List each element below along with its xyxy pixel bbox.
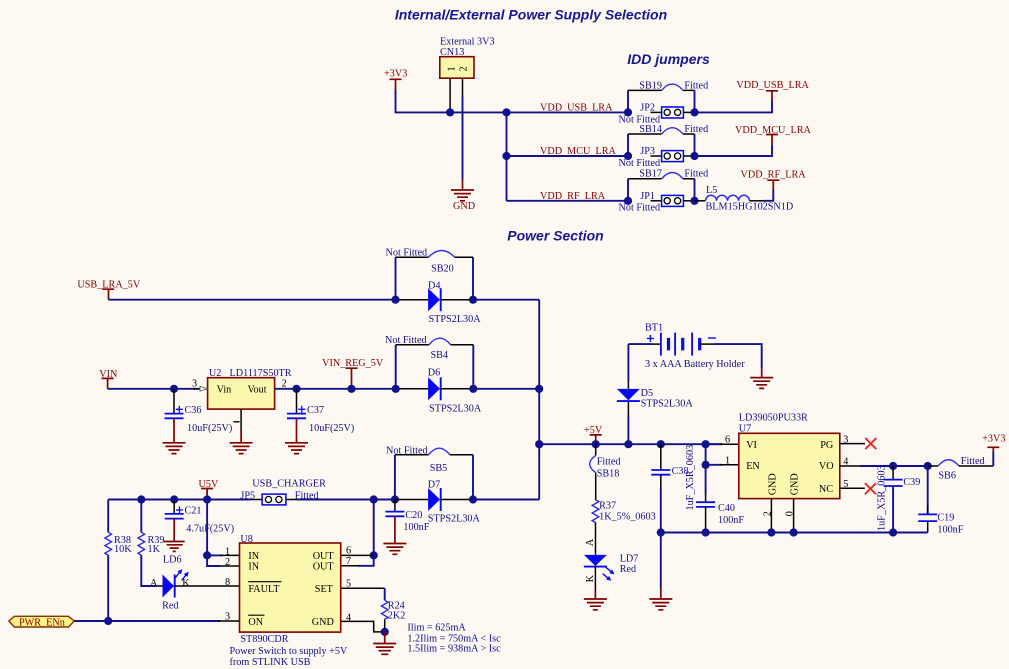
pin 5 (NC) U7 with no-ERC [840,479,876,494]
junction +5V [592,440,600,448]
wire R24 to gnd junction [384,619,386,632]
junction C40 top [702,440,710,448]
svg-text:Power Switch to supply +5V: Power Switch to supply +5V [230,646,348,657]
svg-text:1: 1 [225,547,230,558]
wire U2 out [275,388,396,390]
svg-text:2: 2 [282,378,287,389]
solder bridge SB18 [590,444,621,500]
svg-text:1: 1 [446,66,457,71]
junction pin1 branch [203,551,211,559]
pin 2 of U8 [220,557,240,568]
power port VIN_REG_5V [322,358,384,389]
svg-text:6: 6 [725,435,730,446]
junction D4 left [391,296,399,304]
junction C20/D7 [391,495,399,503]
svg-text:Not Fitted: Not Fitted [385,335,427,346]
junction R24 bottom [381,628,389,636]
wire L5 to VDD_RF_LRA port [763,190,773,201]
wire right trunk vertical [538,300,540,500]
svg-text:C36: C36 [185,405,202,416]
switch U8 ST890CDR [240,534,341,645]
pin 3 of U2 [192,378,208,391]
junction EN [702,461,710,469]
svg-text:4.7uF(25V): 4.7uF(25V) [186,524,234,535]
svg-text:2: 2 [225,557,230,568]
svg-text:C39: C39 [903,477,920,488]
wire bottom rail [661,532,928,534]
svg-text:External 3V3: External 3V3 [440,37,495,48]
resistor R24 2K2 [381,600,405,621]
svg-text:C21: C21 [185,506,202,517]
capacitor C39 1uF_X5R_0603 [876,465,920,532]
svg-text:3: 3 [843,435,848,446]
junction bottom C38 [657,528,665,536]
svg-text:BLM15HG102SN1D: BLM15HG102SN1D [706,202,794,213]
wire D4 to right trunk [473,299,539,301]
svg-text:OUT: OUT [313,562,335,573]
svg-text:STPS2L30A: STPS2L30A [641,399,694,410]
junction R39 top [137,495,145,503]
svg-text:Not Fitted: Not Fitted [619,203,661,214]
junction JP3 right [690,152,698,160]
svg-text:A: A [585,538,596,546]
svg-text:D6: D6 [428,368,440,379]
svg-text:1: 1 [725,455,730,466]
svg-text:Internal/External Power Supply: Internal/External Power Supply Selection [395,6,667,22]
svg-text:SB6: SB6 [938,471,956,482]
wire VIN to U2 [108,388,208,390]
svg-text:Fitted: Fitted [295,490,319,501]
power port VDD_RF_LRA [741,170,807,191]
junction rail-trunk [535,440,543,448]
capacitor C21 4.7uF(25V) [165,500,234,535]
junction JP2 left [624,108,632,116]
wire R39 branch [140,500,142,533]
svg-text:A: A [150,578,158,589]
jumper JP1 [619,191,695,214]
junction D4 right [469,296,477,304]
svg-text:C20: C20 [405,510,422,521]
power port VIN [99,369,118,389]
svg-text:2: 2 [459,66,470,71]
ground (C38) [649,589,672,610]
power port U5V [199,479,219,495]
svg-text:R37: R37 [599,501,616,512]
svg-text:SB17: SB17 [639,169,662,180]
junction trunk row2 [502,152,510,160]
svg-text:C19: C19 [937,513,954,524]
junction C37 [292,385,300,393]
svg-text:VDD_RF_LRA: VDD_RF_LRA [741,170,807,181]
pin 2 (GND) U7 [762,499,773,533]
pin 1 of U8 [207,547,239,558]
regulator U7 LD39050PU33R [739,413,840,499]
svg-text:STPS2L30A: STPS2L30A [429,404,482,415]
ground (battery) [750,368,773,388]
junction bottom pin2 [767,528,775,536]
svg-text:GND: GND [453,201,475,212]
svg-text:Fitted: Fitted [684,80,708,91]
pin 4 of U8 (GND) [341,613,385,632]
pin 1 of CN13 [449,78,451,112]
wire trunk vertical [506,112,508,200]
junction trunk top [502,108,510,116]
svg-text:100nF: 100nF [718,515,744,526]
LED LD7 Red [584,554,638,583]
pin 2 of CN13 [462,78,464,95]
svg-text:SB18: SB18 [597,468,620,479]
solder bridge SB19 bypass [628,80,708,112]
svg-text:100nF: 100nF [937,525,963,536]
pin 4 (VO) U7 [840,457,860,468]
svg-text:EN: EN [746,461,760,472]
junction D5-rail [624,440,632,448]
resistor R37 1K_5%_0603 [592,500,655,523]
ground (R24) [373,632,396,654]
svg-text:STPS2L30A: STPS2L30A [429,314,482,325]
pin 8 of U8 (FAULT wire) [175,577,240,588]
svg-text:BT1: BT1 [645,323,663,334]
svg-text:D5: D5 [641,388,653,399]
svg-text:VI: VI [746,440,757,451]
capacitor C40 100nF [696,495,744,533]
wire D6 to trunk [473,388,539,390]
svg-text:IDD jumpers: IDD jumpers [627,51,710,67]
svg-text:3: 3 [192,378,197,389]
junction VIN_REG_5V [347,385,355,393]
junction CN13 pin1 [446,108,454,116]
svg-text:6: 6 [346,546,351,557]
power port USB_LRA_5V [77,279,140,299]
svg-text:10K: 10K [114,544,132,555]
svg-text:L5: L5 [706,185,717,196]
power port VDD_USB_LRA [736,80,809,101]
wire battery to D5 [627,344,629,381]
svg-text:Power Section: Power Section [507,227,603,243]
wire R38 branch [107,500,109,533]
svg-text:Vout: Vout [248,384,267,395]
diode D4 STPS2L30A [396,281,482,325]
jumper JP5 USB_CHARGER [240,478,326,505]
capacitor C19 100nF [918,466,964,536]
svg-text:5: 5 [843,479,848,490]
wire U5V row [108,499,539,501]
svg-text:Vin: Vin [217,384,232,395]
pin 6 stub U7 [706,435,739,446]
svg-text:SB4: SB4 [431,350,449,361]
svg-text:LD39050PU33R: LD39050PU33R [739,413,808,424]
power port +5V [584,425,603,444]
svg-text:1uF_X5R_0603: 1uF_X5R_0603 [685,445,696,511]
solder bridge SB14 bypass [628,124,708,156]
svg-text:Not Fitted: Not Fitted [386,446,428,457]
wire USB_LRA_5V to D4 [109,299,396,301]
svg-text:C37: C37 [307,405,324,416]
svg-text:4: 4 [346,613,351,624]
wire row2 left [507,155,629,157]
svg-text:USB_CHARGER: USB_CHARGER [252,478,326,489]
svg-text:ON: ON [248,617,263,628]
svg-text:100nF: 100nF [403,522,429,533]
junction JP3 left [624,152,632,160]
svg-text:+3V3: +3V3 [982,434,1005,445]
svg-text:STPS2L30A: STPS2L30A [428,514,481,525]
svg-text:2: 2 [762,511,773,516]
svg-text:4: 4 [843,457,848,468]
svg-text:FAULT: FAULT [248,584,280,595]
pin 3 (PG) U7 with no-ERC [840,435,877,450]
junction U5V [203,495,211,503]
battery BT1 3 x AAA Battery Holder [628,323,745,370]
pin 2 of U2 [275,378,297,389]
junction D7 right [469,495,477,503]
svg-text:Red: Red [162,601,178,612]
solder bridge SB5 bypass [386,446,473,500]
svg-text:3 x AAA Battery Holder: 3 x AAA Battery Holder [645,359,745,370]
svg-text:SB19: SB19 [639,80,662,91]
svg-text:OUT: OUT [313,551,335,562]
capacitor C20 100nF [385,500,429,534]
svg-text:SB14: SB14 [639,124,662,135]
power port +3V3 (top left) [384,69,407,91]
capacitor C36 10uF(25V) [165,389,233,434]
svg-text:VDD_RF_LRA: VDD_RF_LRA [540,191,606,202]
pin 7 of U8 [341,556,360,567]
junction trunk D6 row [535,385,543,393]
svg-text:Not Fitted: Not Fitted [386,247,428,258]
junction JP1 left [624,197,632,205]
svg-text:K: K [585,574,596,582]
svg-text:VDD_USB_LRA: VDD_USB_LRA [540,103,613,114]
svg-text:10uF(25V): 10uF(25V) [309,423,354,434]
power port +3V3 (right) [982,434,1005,452]
wire C40 vertical [705,444,707,495]
junction pin6 [370,551,378,559]
wire R37 to LD7 [595,523,597,555]
svg-text:2K2: 2K2 [388,610,406,621]
junction bottom C40 [702,528,710,536]
svg-text:1uF_X5R_0603: 1uF_X5R_0603 [876,465,887,531]
svg-text:Fitted: Fitted [961,456,985,467]
svg-text:IN: IN [248,562,259,573]
junction bottom C39 [889,528,897,536]
wire SB6 to +3V3 [992,452,994,466]
port PWR_ENn [9,616,74,628]
svg-text:8: 8 [225,577,230,588]
junction SB6 left [924,462,932,470]
power port VDD_MCU_LRA [735,125,811,145]
inductor L5 [695,185,794,213]
junction OUT branch [370,495,378,503]
LED LD6 Red [157,554,191,611]
pin 5 of U8 (SET) [341,579,385,590]
wire JP2 to VDD_USB_LRA port [695,101,773,113]
connector CN13 [440,37,495,79]
pin 1 (gnd) of U2 [234,409,242,431]
junction C36 [170,385,178,393]
svg-text:IN: IN [248,551,259,562]
svg-text:Fitted: Fitted [597,457,621,468]
solder bridge SB20 bypass [386,247,474,299]
svg-text:+3V3: +3V3 [384,69,407,80]
svg-text:LD6: LD6 [163,554,182,565]
solder bridge SB4 bypass [385,335,473,389]
junction JP2 right [690,108,698,116]
resistor R38 10K [105,532,132,555]
svg-text:Ilim = 625mA: Ilim = 625mA [407,623,466,634]
capacitor C38 1uF_X5R_0603 [651,444,696,532]
ground (C21) [164,519,185,552]
wire SET to R24 [384,588,386,600]
junction C38 [657,440,665,448]
svg-text:from STLINK USB: from STLINK USB [230,657,311,668]
svg-text:ST890CDR: ST890CDR [240,634,288,645]
svg-text:Red: Red [620,564,636,575]
svg-text:1K_5%_0603: 1K_5%_0603 [599,512,656,523]
svg-text:C40: C40 [718,503,735,514]
ground (LD7) [584,590,607,610]
svg-text:VO: VO [819,461,834,472]
junction bottom pin0 [790,528,798,536]
jumper JP2 [619,103,695,126]
wire D5 to rail [627,415,629,444]
wire +5V rail [539,443,722,445]
junction C39 top [889,462,897,470]
pin 3 of U8 (ON) [218,612,240,623]
svg-text:Fitted: Fitted [684,169,708,180]
pin 1 stub U7 (EN) [706,455,739,466]
wire +3V3 to CN13 row [396,90,629,112]
junction C21 [170,495,178,503]
wire JP3 to VDD_MCU_LRA port [695,144,773,156]
wire OUT vertical [358,500,374,566]
capacitor C37 10uF(25V) [287,389,354,434]
wire row3 left [507,200,629,202]
svg-text:Fitted: Fitted [684,124,708,135]
svg-text:0: 0 [785,511,796,516]
wire LD7 to gnd [594,567,596,590]
svg-text:SB5: SB5 [430,463,448,474]
ground (C37) [285,418,308,453]
pin 6 of U8 [341,546,374,557]
wire R38 to PWR row [107,555,109,621]
svg-text:PG: PG [820,440,834,451]
svg-text:1.5Ilim = 938mA > Isc: 1.5Ilim = 938mA > Isc [407,644,501,655]
svg-text:VDD_USB_LRA: VDD_USB_LRA [736,80,809,91]
svg-text:SB20: SB20 [431,263,454,274]
resistor R39 1K [138,532,164,555]
jumper JP3 [619,146,695,169]
wire battery to gnd [714,344,762,368]
solder bridge SB17 bypass [628,169,708,201]
svg-text:PWR_ENn: PWR_ENn [19,617,65,628]
diode D7 STPS2L30A [395,480,481,525]
svg-text:D7: D7 [428,480,440,491]
svg-text:10uF(25V): 10uF(25V) [187,423,232,434]
junction D6 right [469,385,477,393]
junction PWR/R38 [104,617,112,625]
wire U5V to U8 pins [207,495,220,566]
svg-text:5: 5 [346,579,351,590]
ground (U2) [230,431,253,454]
svg-text:NC: NC [819,484,833,495]
wire VO net [860,465,928,467]
wire PWR_ENn to U8 [74,620,220,622]
diode D6 STPS2L30A [396,368,482,415]
svg-text:GND: GND [312,617,334,628]
wire C38 to gnd [660,533,662,589]
wire CN13 pin2 to GND [462,95,464,179]
ground GND (CN13) [451,179,475,212]
svg-text:Not Fitted: Not Fitted [619,158,661,169]
svg-text:3: 3 [225,612,230,623]
wire R39 to LD6 [141,555,157,586]
svg-text:7: 7 [346,556,351,567]
svg-text:K: K [182,578,190,589]
junction JP1 right [690,197,698,205]
svg-text:GND: GND [790,473,801,495]
svg-text:VDD_MCU_LRA: VDD_MCU_LRA [540,146,616,157]
svg-text:1K: 1K [148,544,161,555]
ground (C20) [383,516,406,554]
svg-text:GND: GND [768,473,779,495]
regulator U2 LD1117S50TR [208,368,292,409]
junction D6 left [392,385,400,393]
pin 0 (GND) U7 [785,499,796,533]
svg-text:SET: SET [315,584,334,595]
diode D5 STPS2L30A [617,382,693,416]
ground (C36) [163,418,186,453]
solder bridge SB6 [928,456,994,482]
